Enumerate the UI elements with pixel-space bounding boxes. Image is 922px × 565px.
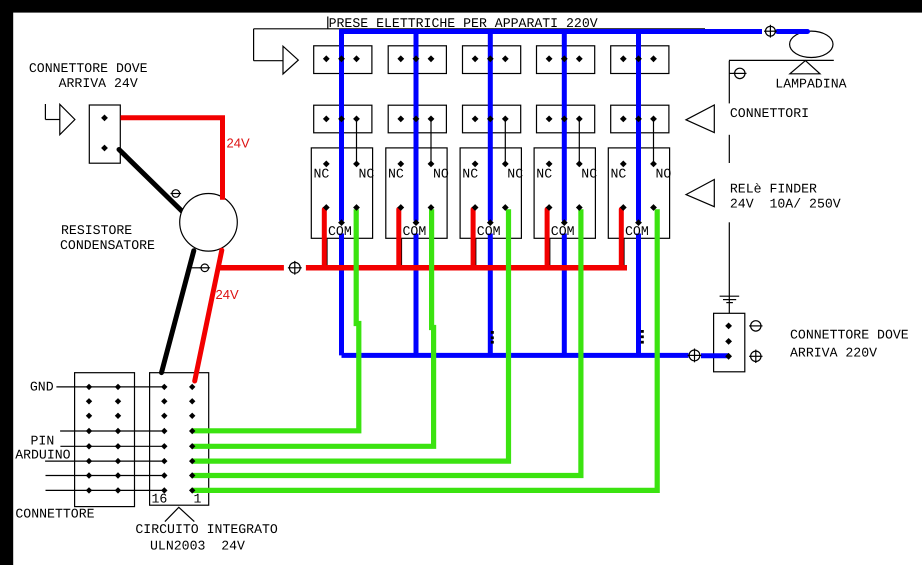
svg-text:NC: NC (536, 167, 552, 182)
svg-text:1: 1 (194, 492, 202, 507)
svg-text:CIRCUITO INTEGRATO: CIRCUITO INTEGRATO (135, 522, 278, 537)
svg-text:CONNETTORE DOVE: CONNETTORE DOVE (790, 328, 909, 343)
svg-text:ULN2003 24V: ULN2003 24V (150, 539, 245, 554)
svg-text:NC: NC (507, 167, 523, 182)
svg-text:GND: GND (30, 380, 54, 395)
svg-text:24V: 24V (227, 135, 250, 150)
svg-text:COM: COM (551, 224, 575, 239)
svg-text:RESISTORE: RESISTORE (61, 223, 132, 238)
svg-text:NC: NC (611, 167, 627, 182)
svg-text:COM: COM (403, 224, 427, 239)
svg-text:CONDENSATORE: CONDENSATORE (60, 238, 155, 253)
svg-text:NO: NO (433, 167, 449, 182)
svg-text:PIN: PIN (31, 433, 55, 448)
svg-text:NC: NC (314, 167, 330, 182)
svg-text:NC: NC (388, 167, 404, 182)
svg-text:LAMPADINA: LAMPADINA (775, 77, 846, 92)
svg-text:NC: NC (359, 167, 375, 182)
svg-text:COM: COM (625, 224, 649, 239)
svg-text:CONNETTORE DOVE: CONNETTORE DOVE (29, 61, 148, 76)
svg-text:CONNETTORI: CONNETTORI (730, 106, 809, 121)
svg-text:NC: NC (462, 167, 478, 182)
svg-text:ARRIVA 24V: ARRIVA 24V (59, 76, 138, 91)
svg-text:ARDUINO: ARDUINO (15, 447, 70, 462)
svg-text:RELè FINDER: RELè FINDER (730, 182, 817, 197)
svg-text:CONNETTORE: CONNETTORE (15, 506, 94, 521)
svg-text:COM: COM (477, 224, 501, 239)
svg-text:PRESE ELETTRICHE PER APPARATI: PRESE ELETTRICHE PER APPARATI 220V (329, 16, 598, 31)
svg-text:ARRIVA 220V: ARRIVA 220V (790, 345, 877, 360)
svg-text:24V 10A/ 250V: 24V 10A/ 250V (730, 197, 841, 212)
svg-text:24V: 24V (216, 287, 239, 302)
svg-text:NC: NC (581, 167, 597, 182)
svg-text:16: 16 (152, 492, 168, 507)
svg-text:COM: COM (328, 224, 352, 239)
svg-text:NO: NO (656, 167, 672, 182)
